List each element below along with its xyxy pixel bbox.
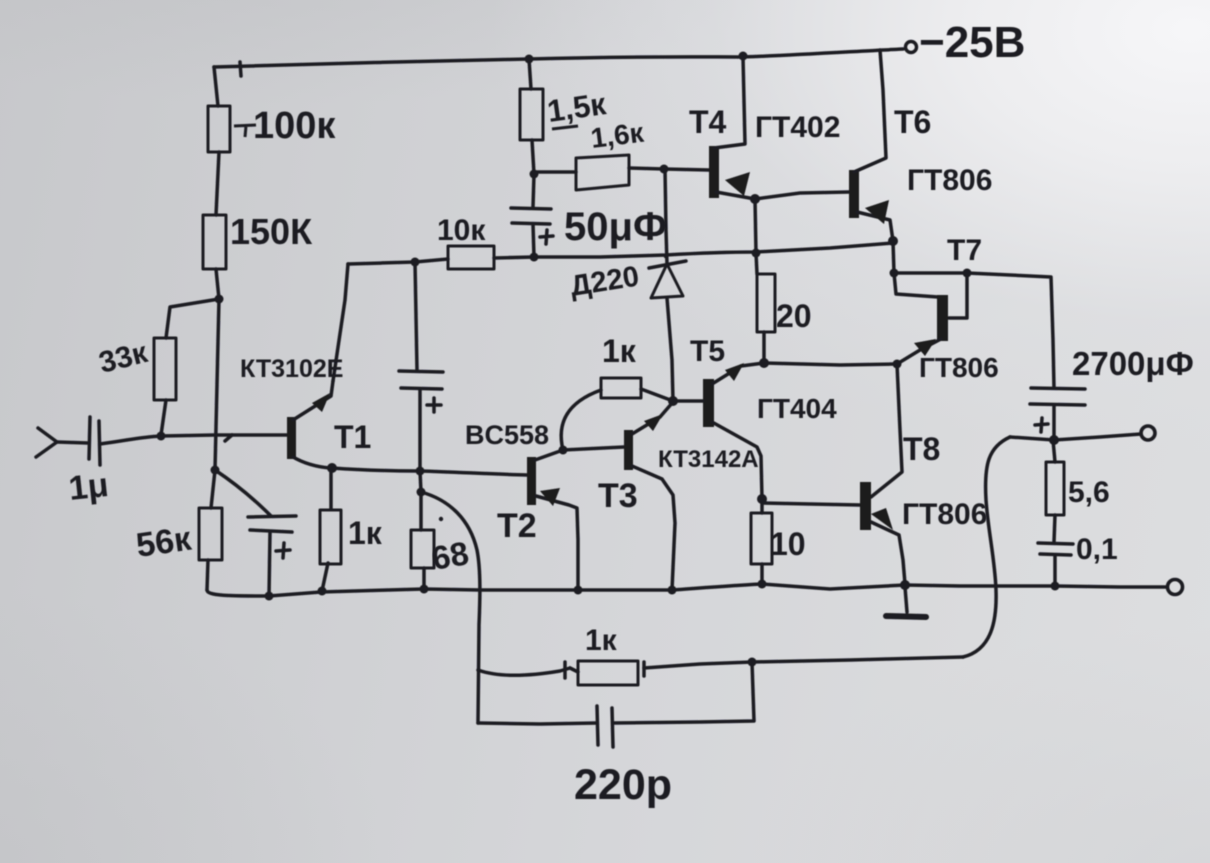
svg-text:150К: 150К — [230, 211, 313, 252]
resistor 150k — [203, 215, 226, 269]
svg-text:BC558: BC558 — [465, 420, 549, 450]
node: rail / T4 collector junction — [739, 52, 748, 61]
capacitor 2700uF — [1030, 388, 1085, 440]
input terminal arrow — [36, 428, 88, 457]
node: feedback takeoff junction — [417, 488, 426, 497]
node: T2 collector junction — [559, 446, 568, 455]
svg-text:5,6: 5,6 — [1068, 476, 1110, 509]
wire: ground/common rail — [207, 584, 905, 596]
diode D220 — [649, 169, 686, 401]
transistor T3 KT3142A — [624, 402, 675, 590]
wire: 1k feedback to output tap — [644, 657, 963, 668]
node: 20ohm top junction — [752, 249, 761, 258]
wire: 33k to input node — [161, 400, 166, 435]
wire: input to T1 base — [100, 435, 287, 444]
transistor T5 GT404 — [673, 363, 764, 499]
svg-text:Т8: Т8 — [903, 431, 940, 467]
node: cap / emitter line junction — [416, 467, 425, 476]
svg-text:2700μФ: 2700μФ — [1072, 345, 1194, 382]
feedback curve from 68 node down to loop — [421, 492, 480, 723]
wire: output node to upper terminal — [1010, 434, 1141, 440]
svg-text:ГТ806: ГТ806 — [907, 164, 992, 197]
wire: 1k to T5 base node — [641, 389, 673, 401]
wire: T7 base drop — [949, 273, 967, 318]
svg-text:−25В: −25В — [919, 18, 1025, 67]
wire: T8 base line — [762, 503, 860, 505]
wire: 220p branch lower — [478, 723, 597, 724]
transistor T2 BC558 — [527, 450, 578, 590]
svg-text:1к: 1к — [602, 333, 637, 369]
svg-text:ГТ404: ГТ404 — [757, 393, 837, 424]
wire: bias node to 33k — [166, 299, 219, 338]
node: T7 base tap — [963, 269, 972, 278]
wire: bootstrap cap to emitter line — [418, 389, 422, 471]
node: T8 emitter to rail — [900, 580, 910, 590]
svg-text:56к: 56к — [134, 520, 195, 565]
node: T4 emitter junction — [750, 194, 760, 204]
transistor T8 GT806 — [860, 482, 905, 584]
wire: feedback 1k branch — [478, 668, 570, 675]
wire: T1 collector riser to 10k line — [333, 264, 348, 381]
svg-text:Т3: Т3 — [598, 477, 638, 515]
ground — [886, 587, 926, 617]
terminal: output lower — [1168, 580, 1183, 595]
wire: T7 base feed line — [894, 273, 1054, 388]
capacitor (bootstrap, electrolytic) — [399, 371, 443, 412]
svg-text:0,1: 0,1 — [1076, 533, 1118, 566]
node: 10ohm to rail — [758, 580, 767, 589]
terminal: output upper — [1141, 426, 1155, 440]
resistor 1k feedback — [565, 661, 644, 685]
wire: bootstrap cap chain upper — [415, 262, 417, 370]
wire: 1.5k from rail — [529, 59, 531, 89]
svg-text:68: 68 — [429, 534, 472, 577]
resistor 20 — [757, 274, 775, 332]
resistor 1k (T1 emitter) — [320, 469, 341, 591]
wire: 100k to 150k — [216, 152, 219, 215]
svg-text:33к: 33к — [96, 336, 152, 380]
svg-text:ГТ806: ГТ806 — [902, 498, 987, 531]
capacitor 220p — [597, 706, 613, 747]
wire: 20ohm to T5 collector node — [762, 332, 766, 363]
node: diode top junction — [660, 165, 669, 174]
label 100k — [234, 105, 336, 147]
node: bias junction — [215, 295, 224, 304]
node: T7 emitter junction — [893, 360, 902, 369]
node: 33k / input wire junction — [157, 432, 166, 441]
svg-text:ГТ806: ГТ806 — [919, 352, 999, 383]
transistor T4 GT402 — [709, 57, 755, 199]
label 1,5k — [552, 126, 578, 129]
node: T2 emitter to rail — [574, 586, 583, 595]
wire: lower output wire — [905, 585, 1166, 587]
node: 68 to rail — [420, 585, 429, 594]
wire: junction to 1.6k — [534, 170, 576, 174]
wire: bias node down across input to 56k — [211, 299, 219, 508]
node: feedback right junction — [748, 658, 757, 667]
node: T7 base line junction — [890, 269, 899, 278]
node: diode / 50u line crossing — [664, 254, 669, 259]
node: 50u bottom junction — [530, 253, 539, 262]
svg-text:50μФ: 50μФ — [564, 205, 667, 249]
node: output node — [1049, 435, 1059, 445]
wire: T5 collector node to T7 emitter node — [764, 363, 897, 365]
svg-text:Д220: Д220 — [568, 261, 641, 303]
node: T5 emitter / 10ohm junction — [757, 494, 767, 504]
node: T1 emitter junction — [327, 463, 337, 473]
wire: long line 50u node to T6 emitter node — [534, 243, 893, 257]
resistor 1k (T3 collector) — [601, 378, 641, 398]
resistor 1.6k — [576, 155, 629, 190]
wire: rail down to 100k — [214, 67, 218, 106]
resistor 5.6 — [1046, 440, 1064, 542]
capacitor 50uF — [511, 174, 553, 257]
wire: T6 node down to T7 collector tap — [893, 241, 938, 297]
wire: 220p to feedback junction — [613, 662, 754, 723]
svg-text:1,6к: 1,6к — [589, 117, 646, 154]
wire: arc from T2 collector node to 1k — [561, 390, 601, 450]
node: electrolytic tap junction — [211, 466, 220, 475]
node: T6 emitter junction — [888, 236, 898, 246]
resistor 10k — [448, 246, 494, 269]
wire: 1.6k to T4 base — [629, 168, 709, 170]
svg-text:10к: 10к — [437, 214, 486, 247]
wire: 1.5k to junction — [532, 140, 534, 174]
wire: emitter line down to 68 — [420, 471, 421, 530]
svg-text:20: 20 — [776, 298, 812, 334]
capacitor (56k bypass electrolytic) — [215, 470, 296, 596]
node: 1k to rail — [318, 587, 327, 596]
transistor T7 GT806 — [897, 295, 948, 364]
svg-text:ГТ402: ГТ402 — [755, 111, 840, 144]
wire: 150k to bias node — [216, 269, 219, 299]
wire: T1 emitter to T2 base — [332, 468, 527, 475]
svg-text:100к: 100к — [253, 105, 336, 147]
transistor T1 KT3102E — [287, 381, 333, 468]
resistor 100k — [208, 106, 230, 152]
node: 1.5k / 1.6k / 50u junction — [530, 170, 539, 179]
wire: 10k feed line — [348, 259, 448, 264]
svg-text:Т6: Т6 — [894, 104, 931, 140]
wire: T4 emitter node down to 20ohm — [755, 199, 757, 274]
svg-text:10: 10 — [770, 526, 806, 562]
wire: 10k to 50u node — [494, 257, 534, 258]
svg-text:Т5: Т5 — [690, 335, 725, 368]
transistor T6 GT806 — [849, 50, 893, 241]
node: T5 collector junction — [759, 358, 769, 368]
wire: T2 collector to T3 base — [563, 447, 624, 450]
svg-text:КТ3142А: КТ3142А — [658, 446, 759, 473]
resistor 68 — [439, 517, 443, 521]
svg-text:КТ3102Е: КТ3102Е — [240, 355, 343, 383]
node: zobel to lower wire — [1051, 582, 1060, 591]
svg-text:1к: 1к — [585, 624, 618, 657]
terminal: -25V supply — [906, 42, 917, 53]
node: rail / 1.5k junction — [525, 55, 534, 64]
wire: T7 emitter down to T8 collector — [871, 364, 902, 497]
resistor 33k — [154, 338, 176, 400]
resistor 56k — [199, 508, 222, 560]
svg-text:Т1: Т1 — [334, 419, 371, 455]
svg-text:Т2: Т2 — [497, 507, 537, 545]
svg-text:220p: 220p — [574, 761, 672, 809]
svg-text:1μ: 1μ — [67, 466, 110, 508]
wire: 68 to rail — [422, 568, 426, 589]
capacitor 0.1 — [1038, 543, 1073, 586]
node: bootstrap cap tap — [411, 258, 420, 267]
svg-text:Т4: Т4 — [689, 104, 727, 140]
wire: top supply rail — [214, 49, 903, 76]
capacitor 1u input — [89, 417, 100, 465]
node: electrolytic to rail — [265, 592, 274, 601]
node: T3 emitter to rail — [668, 586, 677, 595]
svg-text:Т7: Т7 — [947, 234, 982, 267]
svg-text:1к: 1к — [348, 515, 383, 551]
resistor 10 — [751, 499, 772, 584]
resistor 1.5k — [520, 89, 543, 140]
node: T5 base junction — [668, 396, 678, 406]
wire: output feedback tap curve — [963, 437, 1010, 657]
wire: 56k to ground rail — [207, 560, 208, 590]
wire: T4 emitter to T6 base — [755, 192, 849, 199]
